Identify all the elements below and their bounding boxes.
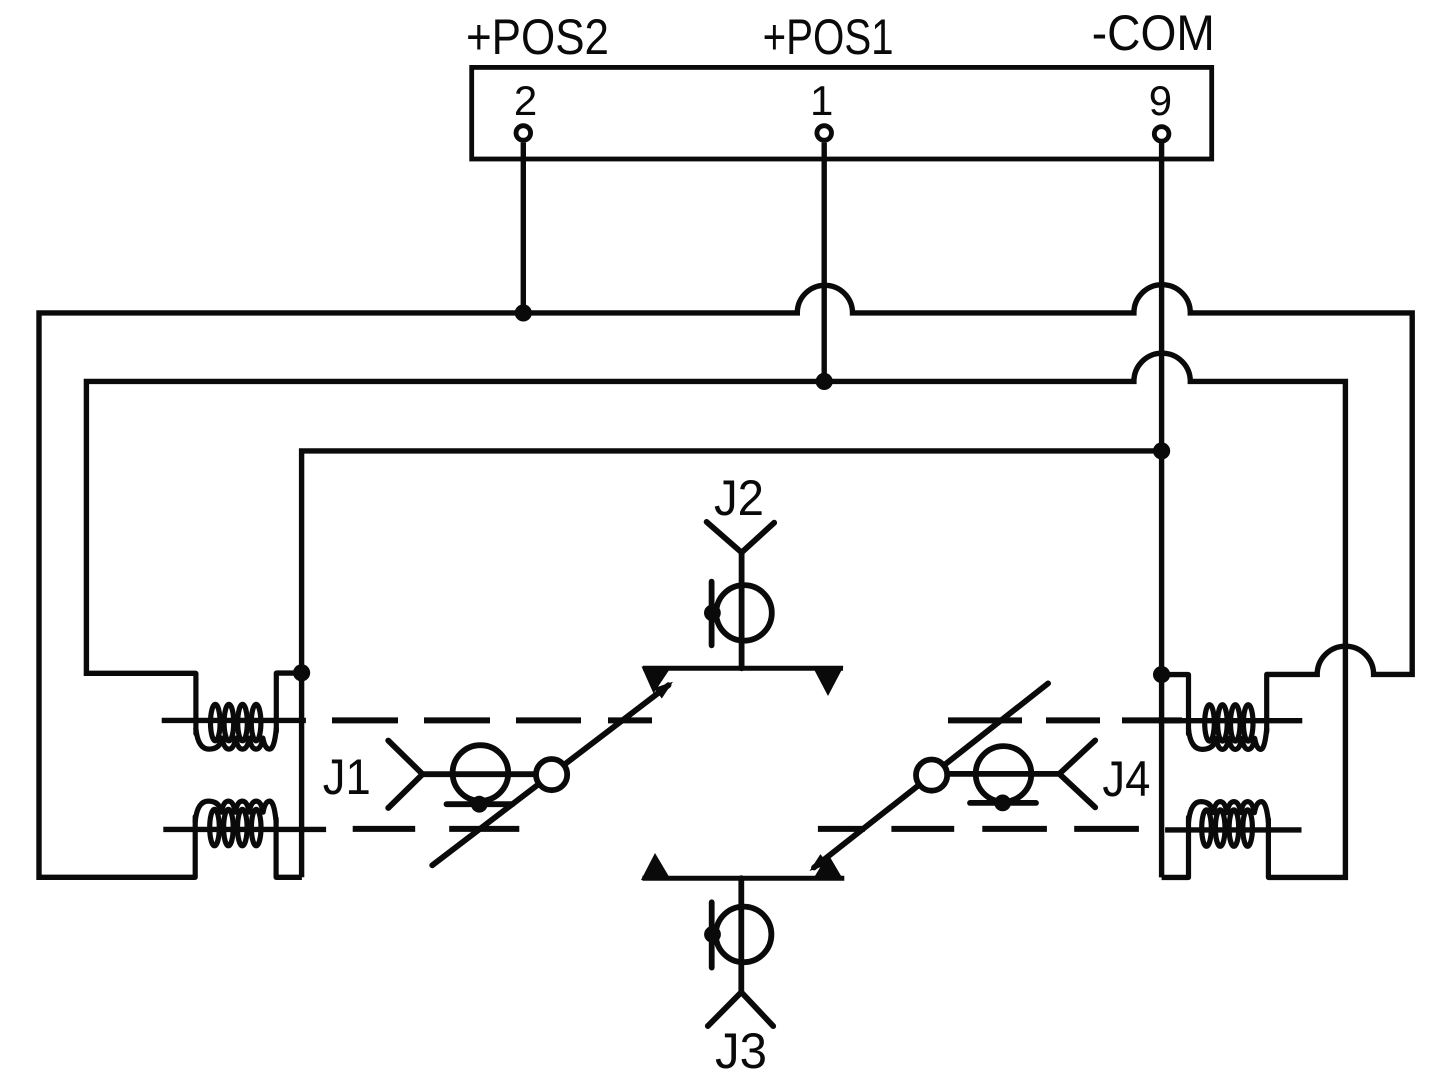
- pivot circle of J4: [916, 760, 947, 791]
- wire from pin 2 to bus 1: [521, 143, 526, 313]
- dot on J4 bar: [994, 795, 1011, 812]
- polarity bar of J3: [709, 902, 715, 967]
- pin 2 terminal circle: [516, 126, 531, 141]
- coil L4 (bottom-right): [1189, 802, 1269, 878]
- wire lead of coil L3: [1158, 718, 1302, 723]
- jack J4 fork and lead: [949, 740, 1095, 807]
- connector block J5 terminal box: [472, 67, 1212, 159]
- dot on J3 bar: [704, 926, 721, 943]
- wire bus2 +POS1 net: second rectangle with hop over -COM: [86, 353, 1345, 877]
- junction node B right coils: [1153, 666, 1170, 683]
- pin 1 terminal circle: [817, 126, 832, 141]
- dot on J1 bar: [471, 796, 488, 813]
- contact bar of J3 with end wedges: [642, 876, 844, 881]
- polarity bar of J2: [709, 582, 715, 646]
- wire from pin 1 to bus 2: [822, 143, 827, 382]
- arrowhead of J4 diagonal: [810, 854, 829, 871]
- svg-text:+POS1: +POS1: [763, 9, 894, 65]
- wire lead of coil L1: [162, 718, 306, 723]
- lamp circle of J1: [453, 745, 509, 801]
- wire step: -COM bottom to bottom-right coil left terminal: [1162, 875, 1189, 880]
- lamp circle of J3: [716, 907, 772, 963]
- coil L3 (top-right): [1189, 674, 1267, 749]
- junction pin1/bus2: [816, 373, 833, 390]
- polarity bar of J1: [447, 801, 513, 807]
- dot on J2 bar: [704, 605, 721, 622]
- junction pin2/bus1: [515, 304, 532, 321]
- pin 9 terminal circle: [1154, 127, 1169, 142]
- svg-text:9: 9: [1149, 77, 1172, 124]
- coil L1 (top-left): [196, 673, 276, 749]
- dashed linkage line upper: [332, 717, 1182, 723]
- svg-text:J1: J1: [323, 749, 371, 805]
- svg-text:-COM: -COM: [1092, 5, 1215, 61]
- pivot circle of J1: [536, 759, 567, 790]
- contact bar of J2 with end wedges: [643, 666, 843, 671]
- lamp circle of J4: [976, 746, 1032, 802]
- arrowhead of J1 diagonal: [654, 682, 673, 699]
- svg-text:J3: J3: [715, 1023, 767, 1077]
- svg-text:J4: J4: [1102, 751, 1150, 807]
- wire lead of coil L4: [1165, 827, 1301, 832]
- junction node A left coils: [293, 664, 310, 681]
- coil L2 (bottom-left): [195, 801, 276, 877]
- jack J2 fork: [707, 522, 775, 668]
- switch diagonal of J1: [432, 685, 668, 865]
- wire step: -COM node B to top-right coil left terminal: [1162, 672, 1189, 677]
- switch diagonal of J4: [814, 683, 1048, 867]
- svg-text:+POS2: +POS2: [466, 9, 609, 65]
- wire bus1 +POS2 net: left edge, top run with hops, right edge down to top-right coil: [39, 285, 1412, 878]
- jack J1 fork and lead: [388, 741, 534, 809]
- svg-text:1: 1: [810, 77, 833, 124]
- svg-text:J2: J2: [714, 470, 764, 526]
- svg-text:2: 2: [514, 77, 537, 124]
- wire step: bottom-left coil right terminal to bus3 bottom: [276, 875, 302, 880]
- jack J3 fork: [708, 878, 773, 1026]
- wire bus3 -COM branch: third run to left coil column: [302, 451, 1162, 877]
- wire -COM from pin 9 down to coil bottoms: [1159, 143, 1164, 878]
- wire lead of coil L2: [163, 827, 326, 832]
- junction -COM/bus3: [1153, 442, 1170, 459]
- lamp circle of J2: [716, 585, 772, 641]
- polarity bar of J4: [970, 800, 1036, 806]
- dashed linkage line lower: [353, 826, 1139, 832]
- wire step: top-left coil right terminal to node A: [276, 670, 301, 675]
